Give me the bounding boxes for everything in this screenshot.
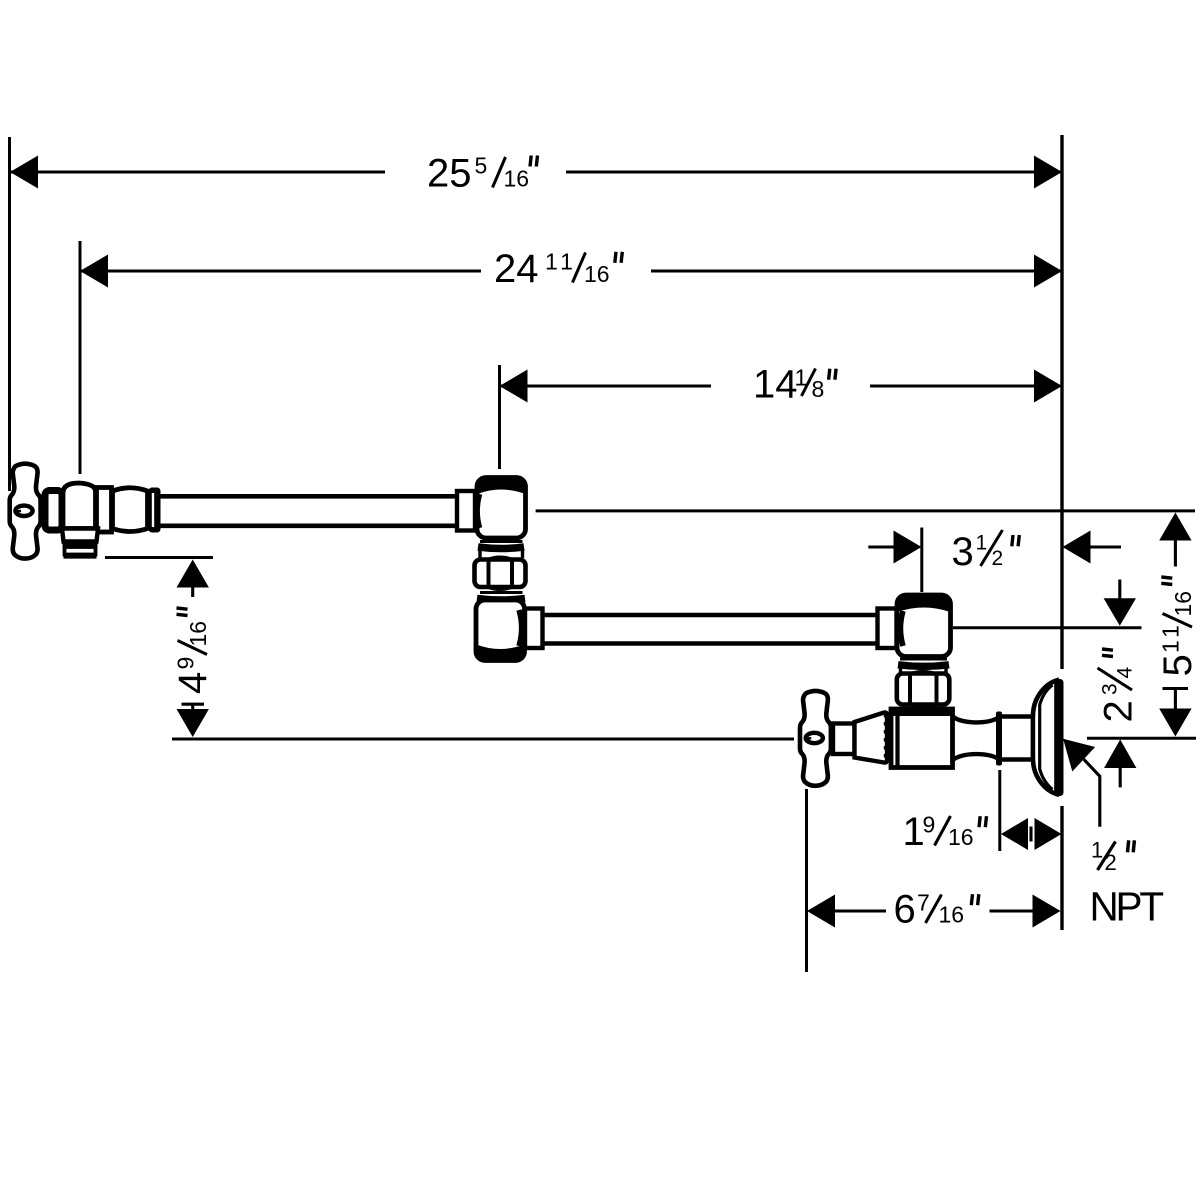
lower elbow socket crescent	[519, 610, 522, 646]
arrowhead 4 9/16 up	[177, 560, 209, 588]
bottom ring band	[896, 711, 950, 713]
arrowhead 3 1/2 right	[1063, 531, 1091, 564]
arrowhead 1 9/16 right	[1035, 818, 1062, 850]
dimension line 14 1/8	[500, 384, 711, 387]
swivel hex nut	[487, 558, 513, 561]
svg-text:1: 1	[1091, 838, 1103, 863]
dimension 3 1/2 left stem	[868, 545, 895, 548]
svg-text:5: 5	[475, 153, 488, 179]
reference line spout axis	[536, 509, 1195, 512]
svg-text:5: 5	[1156, 654, 1200, 676]
lower pipe ferrule	[525, 609, 543, 649]
arrowhead 25 5/16 right	[1034, 156, 1062, 189]
svg-text:3: 3	[952, 530, 974, 574]
svg-text:14: 14	[753, 363, 798, 407]
reference line valve axis right segment	[1087, 737, 1196, 740]
arrowhead 6 7/16 left	[807, 895, 835, 928]
valve stem	[833, 724, 855, 755]
pipe wall top	[159, 494, 460, 499]
lower elbow body	[476, 600, 525, 661]
arrowhead 14 1/8 left	[500, 370, 528, 403]
valve barrel	[891, 709, 953, 768]
svg-text:2: 2	[1105, 850, 1117, 875]
label 14 1/8	[753, 363, 836, 407]
svg-text:11: 11	[1158, 621, 1184, 653]
elbow body	[897, 595, 951, 657]
extension line (3 1/2)	[920, 528, 923, 593]
svg-text:1: 1	[903, 810, 925, 854]
svg-text:9: 9	[173, 657, 199, 670]
valve body	[63, 483, 96, 529]
svg-text:16: 16	[185, 621, 211, 647]
svg-text:11: 11	[545, 249, 577, 275]
joint rings upper	[480, 540, 523, 543]
svg-text:16: 16	[1170, 591, 1196, 617]
arrowhead 14 1/8 right	[1034, 370, 1062, 403]
label 1 9/16	[903, 810, 987, 854]
label 5 11/16 rotated	[1156, 577, 1200, 677]
escutcheon bell	[1033, 681, 1057, 795]
pipe ferrule	[878, 609, 897, 649]
reference line valve axis left segment	[172, 738, 794, 741]
reference line nozzle bottom	[105, 556, 213, 559]
dimension 2 3/4 bottom stem	[1119, 768, 1122, 787]
svg-text:1: 1	[976, 532, 988, 555]
svg-text:24: 24	[494, 247, 539, 291]
label 3 1/2	[952, 530, 1020, 574]
bonnet cone	[855, 712, 888, 762]
svg-text:NPT: NPT	[1090, 884, 1164, 930]
pipe ferrule	[457, 491, 475, 531]
spool neck	[953, 716, 1000, 722]
swivel hex nut	[908, 672, 938, 675]
joint rings lower	[480, 591, 523, 594]
arrowhead 2 3/4 up	[1104, 740, 1136, 769]
elbow cap band	[897, 595, 950, 612]
pipe wall bottom	[159, 523, 460, 528]
dimension 4 9/16 bottom stem	[191, 704, 194, 711]
extension line (14 1/8)	[498, 365, 501, 469]
spout nozzle black band	[63, 540, 98, 548]
cross handle T2	[800, 691, 831, 786]
dimension 6 7/16 left stem	[834, 909, 886, 912]
arrowhead leader 1/2 NPT	[1063, 739, 1095, 772]
label 25 5/16	[427, 152, 538, 196]
svg-text:7: 7	[917, 890, 930, 916]
extension line (6 7/16)	[805, 789, 808, 972]
svg-text:16: 16	[948, 824, 974, 850]
svg-text:2: 2	[1097, 700, 1141, 722]
arrowhead 4 9/16 down	[177, 709, 209, 737]
arrowhead 24 11/16 right	[1034, 255, 1062, 288]
svg-text:9: 9	[923, 812, 936, 838]
spout nozzle upper	[62, 529, 98, 542]
upper elbow cap band	[477, 478, 525, 494]
dimension 5 11/16 top stem	[1174, 540, 1177, 567]
packing nut	[45, 491, 62, 531]
arrowhead 5 11/16 down	[1159, 709, 1191, 737]
upper elbow socket crescent	[477, 494, 479, 528]
dimension 2 3/4 top stem	[1118, 580, 1121, 600]
svg-text:16: 16	[504, 166, 530, 192]
svg-text:16: 16	[939, 902, 965, 928]
svg-text:4: 4	[1114, 667, 1137, 679]
end ring black	[149, 488, 161, 533]
label 2 3/4 rotated	[1097, 649, 1141, 723]
valve stem	[36, 500, 46, 523]
spout nozzle tip	[65, 547, 96, 555]
pipe wall top	[541, 613, 880, 618]
connector ring	[996, 712, 1002, 766]
arrowhead 5 11/16 up	[1159, 513, 1191, 541]
body ring	[97, 488, 112, 533]
label 4 9/16 rotated	[171, 608, 215, 694]
arrowhead 3 1/2 left	[894, 531, 922, 564]
dimension 1 9/16 center tick	[1029, 827, 1032, 842]
reference line 2-3/4 top	[953, 626, 1142, 629]
arrowhead 25 5/16 left	[10, 156, 38, 189]
arrowhead 24 11/16 left	[80, 255, 108, 288]
svg-text:6: 6	[894, 888, 916, 932]
dimension 4 9/16 top stem	[191, 587, 194, 598]
svg-text:16: 16	[584, 261, 610, 287]
thread dots	[884, 714, 887, 761]
dimension 5 11/16 bottom crossbar	[1163, 687, 1189, 690]
svg-text:8: 8	[812, 376, 825, 402]
label 1/2 inch	[1091, 838, 1134, 876]
lower elbow cap band	[476, 645, 524, 661]
escutcheon wall plate	[1056, 679, 1064, 796]
body barrel	[113, 488, 148, 532]
joint rings upper	[900, 658, 947, 661]
dimension 5 11/16 bottom stem	[1174, 689, 1177, 710]
dimension 6 7/16 right stem	[990, 909, 1034, 912]
arrowhead 1 9/16 left	[1001, 818, 1028, 850]
pipe wall bottom	[541, 641, 880, 646]
upper elbow body	[477, 478, 526, 539]
label 24 11/16	[494, 247, 622, 291]
dimension line 24 11/16	[80, 269, 481, 272]
svg-text:25: 25	[427, 152, 472, 196]
svg-text:2: 2	[992, 547, 1004, 570]
svg-text:4: 4	[171, 672, 215, 694]
dimension line 25 5/16	[10, 170, 385, 173]
dimension 4 9/16 bottom crossbar	[182, 703, 205, 706]
wall nipple cylinder	[1001, 714, 1034, 718]
extension line (24 11/16)	[79, 241, 82, 474]
elbow socket crescent	[901, 611, 904, 646]
wall line lower segment	[1060, 806, 1063, 930]
extension line (1 9/16)	[998, 770, 1001, 851]
dimension 3 1/2 right stem	[1090, 545, 1122, 548]
leader line 1/2 NPT	[1084, 759, 1100, 827]
extension line left (25 5/16)	[8, 137, 11, 491]
arrowhead 2 3/4 down	[1104, 598, 1136, 626]
escutcheon inner line	[1040, 685, 1053, 790]
svg-text:3: 3	[1099, 683, 1122, 695]
cross handle T1	[10, 464, 41, 559]
wall line upper segment	[1060, 135, 1063, 669]
arrowhead 6 7/16 right	[1033, 895, 1061, 928]
label 6 7/16	[894, 888, 979, 932]
